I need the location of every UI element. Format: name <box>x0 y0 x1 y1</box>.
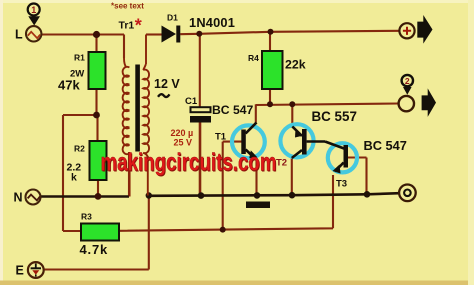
svg-text:L: L <box>15 28 23 42</box>
svg-text:T1: T1 <box>215 132 227 143</box>
svg-text:25 V: 25 V <box>174 138 193 148</box>
svg-text:2: 2 <box>405 76 410 86</box>
svg-text:C1: C1 <box>185 96 198 107</box>
svg-text:BC 547: BC 547 <box>364 138 407 153</box>
svg-text:T2: T2 <box>276 158 287 169</box>
svg-text:Tr1: Tr1 <box>119 20 135 32</box>
svg-text:*: * <box>135 16 142 36</box>
svg-text:1N4001: 1N4001 <box>189 15 235 30</box>
svg-text:220 µ: 220 µ <box>171 128 194 138</box>
svg-text:R3: R3 <box>81 212 92 222</box>
svg-text:22k: 22k <box>285 58 306 72</box>
svg-text:4.7k: 4.7k <box>80 242 109 257</box>
svg-text:BC 547: BC 547 <box>212 103 254 117</box>
svg-text:N: N <box>14 191 23 205</box>
svg-text:R2: R2 <box>74 144 85 154</box>
svg-text:R4: R4 <box>248 53 259 63</box>
svg-text:R1: R1 <box>74 53 85 63</box>
svg-text:makingcircuits.com: makingcircuits.com <box>101 149 277 177</box>
svg-text:D1: D1 <box>167 13 178 23</box>
svg-text:k: k <box>71 172 77 184</box>
svg-text:47k: 47k <box>58 77 80 92</box>
svg-text:BC 557: BC 557 <box>312 109 357 124</box>
svg-text:T3: T3 <box>336 179 347 190</box>
svg-text:12 V: 12 V <box>154 77 180 91</box>
svg-text:1: 1 <box>31 5 36 15</box>
svg-text:E: E <box>16 264 24 278</box>
svg-text:*see text: *see text <box>111 2 144 11</box>
